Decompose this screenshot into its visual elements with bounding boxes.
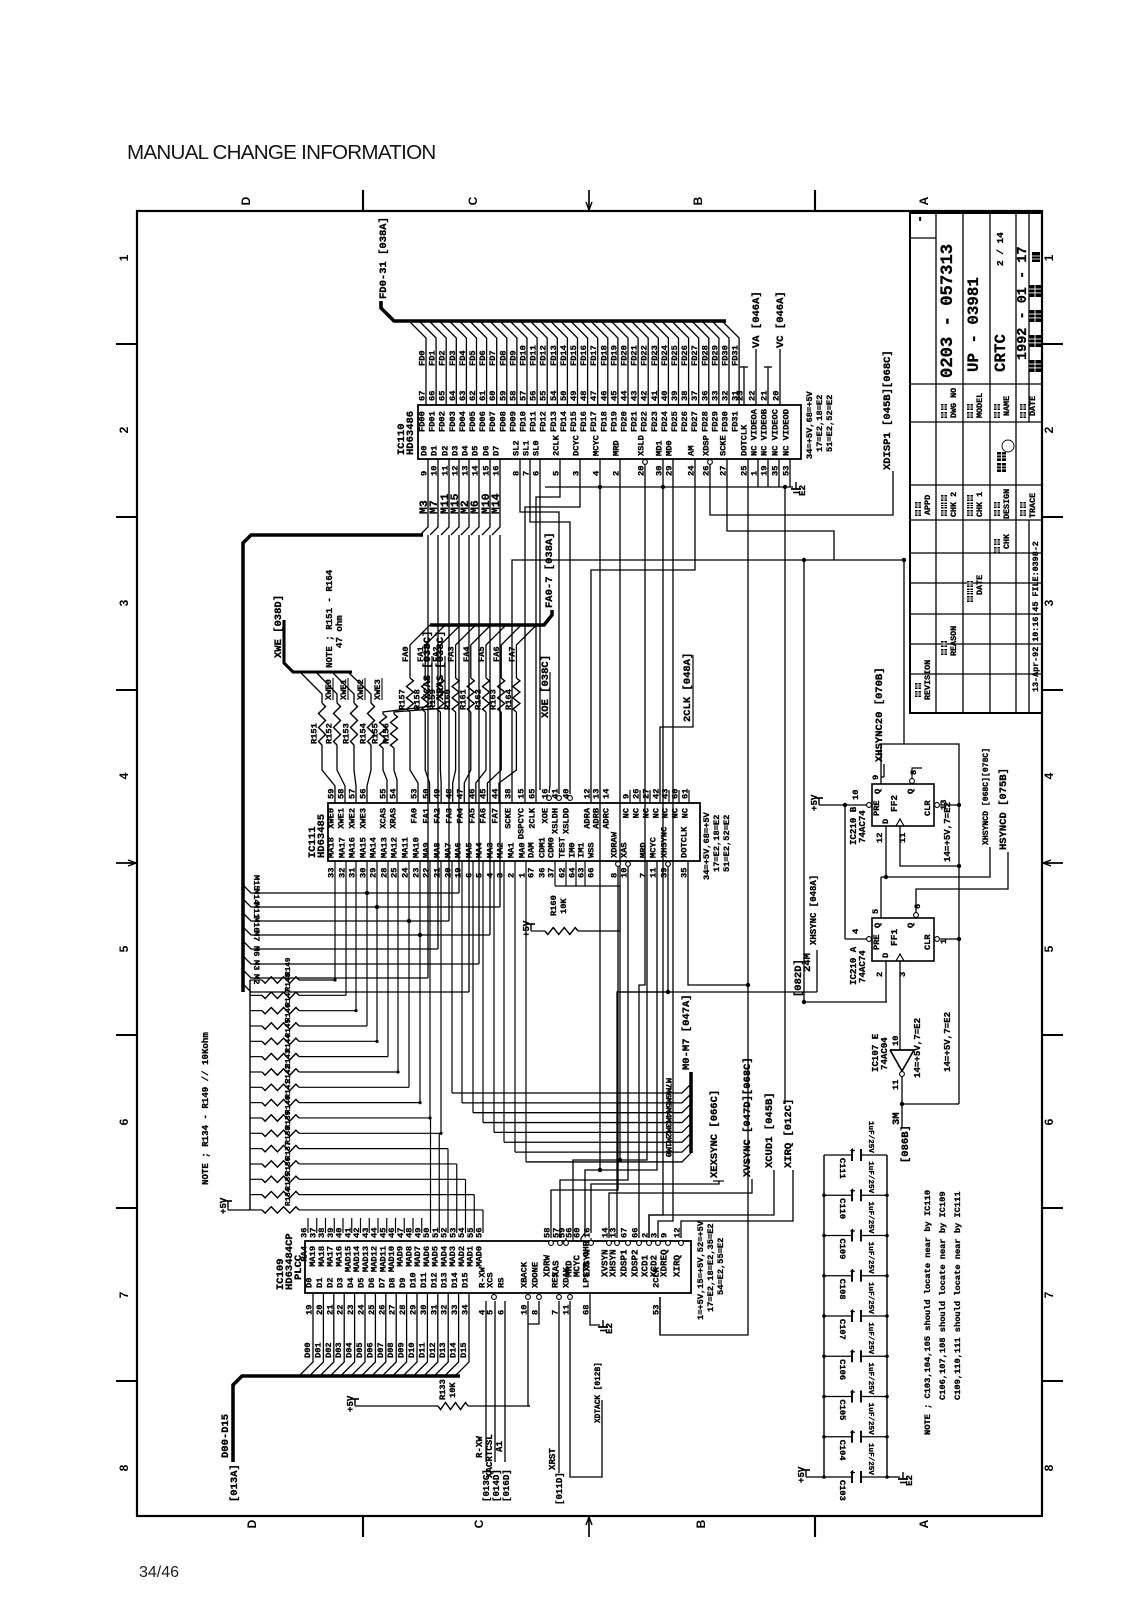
wire SL0 down bbox=[539, 459, 541, 790]
svg-text:FD21: FD21 bbox=[630, 411, 640, 432]
clock triangle FF2 bbox=[896, 819, 904, 826]
svg-text:9: 9 bbox=[660, 1233, 670, 1238]
wire R140 row extension bbox=[299, 1117, 431, 1119]
svg-text:3M: 3M bbox=[891, 1112, 903, 1125]
svg-text:D14: D14 bbox=[449, 1342, 459, 1358]
wire 2CLK IC110 to IC111 pin 65 bbox=[536, 459, 560, 803]
svg-text:D11: D11 bbox=[417, 1342, 427, 1358]
svg-text:MA15: MA15 bbox=[359, 837, 369, 858]
wire M3 stub from M bus bbox=[243, 970, 428, 978]
wire +5V rail for R134-R149 bbox=[227, 1201, 229, 1207]
wire FD22 branch bbox=[631, 321, 648, 405]
wire MA7 vertical bbox=[451, 861, 453, 1093]
svg-text:D2: D2 bbox=[441, 446, 451, 456]
svg-text:D5: D5 bbox=[471, 446, 481, 456]
wire drop to IC109 MAD pin bbox=[456, 1164, 458, 1233]
wire FD14 branch bbox=[550, 321, 567, 405]
svg-text:NC: NC bbox=[661, 808, 671, 818]
resistor R164 bbox=[513, 678, 520, 712]
svg-text:M0-M7 [047A]: M0-M7 [047A] bbox=[681, 994, 693, 1070]
svg-text:10K: 10K bbox=[559, 898, 569, 914]
svg-text:HD63486: HD63486 bbox=[405, 411, 417, 455]
svg-text:22: 22 bbox=[748, 391, 758, 401]
svg-text:CHK 2: CHK 2 bbox=[949, 492, 959, 517]
wire MRD long run to IC109 pin 56 bbox=[573, 459, 620, 1238]
svg-text:VA [046A]: VA [046A] bbox=[751, 291, 763, 348]
svg-text:MA7: MA7 bbox=[444, 842, 454, 858]
svg-text:DESIGN: DESIGN bbox=[1002, 489, 1012, 519]
wire MA vertical from IC111 bbox=[408, 861, 410, 1087]
zone tick bottom bbox=[362, 1516, 364, 1537]
wire R136 row extension bbox=[299, 1178, 466, 1180]
svg-text:9: 9 bbox=[871, 775, 881, 780]
svg-text:NC VIDEOD: NC VIDEOD bbox=[782, 409, 792, 456]
svg-text:44: 44 bbox=[620, 391, 630, 401]
svg-text:56: 56 bbox=[359, 789, 369, 799]
svg-text:67: 67 bbox=[527, 868, 537, 878]
wire M6 stub from M bus bbox=[243, 956, 479, 964]
svg-text:XHSYNCD [068C][078C]: XHSYNCD [068C][078C] bbox=[982, 748, 991, 845]
svg-text:R160: R160 bbox=[443, 689, 453, 710]
svg-text:66: 66 bbox=[631, 1228, 641, 1238]
svg-text:63: 63 bbox=[458, 391, 468, 401]
bubble pin 12 IC109 bbox=[679, 1241, 684, 1246]
svg-text:41: 41 bbox=[551, 789, 561, 799]
svg-text:FA7: FA7 bbox=[491, 808, 501, 824]
svg-text:40: 40 bbox=[660, 391, 670, 401]
power +5V cap rail bbox=[806, 1476, 824, 1478]
svg-text:1: 1 bbox=[117, 254, 131, 261]
svg-text:FD20: FD20 bbox=[620, 411, 630, 432]
zone tick right bbox=[1042, 516, 1063, 518]
svg-text:D8: D8 bbox=[388, 1278, 398, 1288]
wire M15 stub from M bus bbox=[243, 885, 459, 893]
bubble FF1 CLR bbox=[935, 937, 940, 942]
wire M4 row bbox=[483, 1114, 691, 1123]
wire FA3 branch bbox=[456, 625, 476, 648]
wire M10 from IC110 bbox=[482, 459, 490, 535]
svg-text:2: 2 bbox=[117, 426, 131, 433]
svg-text:62: 62 bbox=[468, 391, 478, 401]
svg-text:FD30: FD30 bbox=[721, 345, 731, 366]
capacitor C110 1uF/25V bbox=[824, 1194, 852, 1196]
wire M7 stub from M bus bbox=[243, 941, 438, 949]
svg-text:59: 59 bbox=[498, 391, 508, 401]
svg-text:D02: D02 bbox=[324, 1342, 334, 1358]
wire M10 vertical join bbox=[489, 535, 491, 935]
zone tick left bbox=[116, 1034, 137, 1036]
wire D1 to D bus bbox=[309, 1293, 323, 1376]
wire M3 vertical join bbox=[427, 535, 429, 978]
svg-text:C109,110,111 should locate nea: C109,110,111 should locate near by IC111 bbox=[953, 1191, 963, 1400]
svg-text:XHSYNC: XHSYNC bbox=[660, 827, 670, 858]
ground E2 at LPSTB bbox=[602, 1320, 604, 1327]
svg-text:XDONE: XDONE bbox=[531, 1262, 541, 1288]
svg-text:64: 64 bbox=[448, 391, 458, 401]
svg-text:XSLDD: XSLDD bbox=[562, 808, 572, 834]
svg-text:M2: M2 bbox=[251, 974, 261, 984]
wire FA6 to resistor bbox=[500, 648, 502, 678]
svg-text:SL1: SL1 bbox=[522, 440, 532, 456]
resistor R146 10K pull-up bbox=[250, 1025, 262, 1027]
svg-text:FD09: FD09 bbox=[508, 411, 518, 432]
svg-text:57: 57 bbox=[348, 789, 358, 799]
svg-text:17=E2,18=E2: 17=E2,18=E2 bbox=[712, 815, 722, 872]
svg-text:D1: D1 bbox=[315, 1278, 325, 1288]
svg-text:FD12: FD12 bbox=[539, 345, 549, 366]
svg-text:FD28: FD28 bbox=[700, 411, 710, 432]
svg-text:R134: R134 bbox=[285, 1187, 293, 1206]
wire tap to XWE2 bbox=[332, 672, 354, 703]
wire XOE to pin 16 bbox=[549, 720, 550, 793]
wire NC stub IC111 bbox=[678, 790, 680, 803]
svg-text:17=E2,18=E2: 17=E2,18=E2 bbox=[815, 395, 825, 452]
label CHK 2 bbox=[941, 510, 947, 516]
wire M2 vertical join bbox=[468, 535, 470, 992]
bubble pin 57 IC109 bbox=[558, 1241, 563, 1246]
wire NC stub IC111 bbox=[688, 790, 690, 803]
wire short stub IC109 top bbox=[572, 1238, 574, 1241]
zone tick right bbox=[1042, 1034, 1063, 1036]
svg-text:FD31: FD31 bbox=[731, 345, 741, 366]
svg-text:SL0: SL0 bbox=[532, 440, 542, 456]
capacitor C106 1uF/25V bbox=[824, 1355, 852, 1357]
bubble pin 3 IC109 bbox=[656, 1241, 661, 1246]
wire FD10 branch bbox=[510, 321, 527, 405]
svg-text:CRTC: CRTC bbox=[992, 334, 1010, 372]
svg-text:74AC74: 74AC74 bbox=[857, 950, 868, 983]
svg-text:2CLK: 2CLK bbox=[652, 1266, 662, 1288]
wire D9 to D bus bbox=[393, 1293, 407, 1376]
wire XDRAW to IC109 pin 58 bbox=[551, 867, 618, 1238]
bubble FF1 Qbar bbox=[914, 913, 919, 918]
svg-text:REASON: REASON bbox=[949, 626, 959, 656]
wire XDAK to XDTACK bbox=[570, 1301, 602, 1477]
wire R159 to FA pin bbox=[439, 712, 442, 803]
svg-text:+: + bbox=[847, 1349, 857, 1354]
svg-text:FD25: FD25 bbox=[670, 345, 680, 366]
svg-text:REVISION: REVISION bbox=[923, 660, 933, 700]
svg-text:MA2: MA2 bbox=[496, 842, 506, 858]
bubble pin 59 IC109 bbox=[564, 1241, 569, 1246]
wire M15 vertical join bbox=[458, 535, 460, 893]
wire MA vertical from IC111 bbox=[376, 861, 378, 1041]
svg-text:M3: M3 bbox=[251, 960, 261, 970]
capacitor C107 1uF/25V bbox=[824, 1315, 852, 1317]
wire M3 from IC110 bbox=[420, 459, 428, 535]
svg-text:R157: R157 bbox=[398, 689, 408, 710]
svg-text:FD7: FD7 bbox=[488, 350, 498, 366]
svg-text:FD3: FD3 bbox=[448, 350, 458, 366]
wire FD7 branch bbox=[480, 321, 497, 405]
svg-text:2CLK: 2CLK bbox=[552, 434, 562, 456]
svg-text:45: 45 bbox=[609, 391, 619, 401]
wire LPSTB to E2 bbox=[590, 1293, 600, 1325]
svg-text:R164: R164 bbox=[504, 689, 514, 710]
svg-text:16: 16 bbox=[541, 789, 551, 799]
wire FD19 branch bbox=[601, 321, 618, 405]
svg-text:11: 11 bbox=[649, 868, 659, 878]
svg-text:RES: RES bbox=[551, 1272, 561, 1288]
svg-text:R161: R161 bbox=[458, 689, 468, 710]
svg-text:D3: D3 bbox=[451, 446, 461, 456]
wire FD2 branch bbox=[429, 321, 446, 405]
label DWG NO bbox=[941, 412, 947, 418]
svg-text:FD1: FD1 bbox=[428, 350, 438, 366]
svg-text:20: 20 bbox=[772, 391, 782, 401]
wire drop to IC109 MAD pin bbox=[447, 1149, 449, 1233]
svg-text:XDISP1 [045B][068C]: XDISP1 [045B][068C] bbox=[882, 350, 894, 470]
svg-text:C105: C105 bbox=[837, 1400, 847, 1421]
wire R134 row extension bbox=[299, 1209, 483, 1211]
label REASON bbox=[941, 649, 947, 655]
svg-text:7: 7 bbox=[639, 873, 649, 878]
svg-text:IM1: IM1 bbox=[577, 842, 587, 858]
wire R144 row to MA vertical bbox=[299, 1056, 388, 1058]
svg-text:ADRB: ADRB bbox=[592, 807, 602, 829]
svg-text:60: 60 bbox=[573, 1228, 583, 1238]
svg-text:MD0: MD0 bbox=[665, 440, 675, 456]
svg-text:56: 56 bbox=[475, 1228, 485, 1238]
wire D8 to D bus bbox=[382, 1293, 396, 1376]
wire A1 down bbox=[504, 1301, 506, 1462]
svg-text:2CLK [048A]: 2CLK [048A] bbox=[682, 653, 694, 722]
svg-text:34=+5V,68=+5V: 34=+5V,68=+5V bbox=[805, 390, 815, 459]
svg-text:XHSYNC20 [070B]: XHSYNC20 [070B] bbox=[874, 667, 886, 762]
zone tick right bbox=[1042, 343, 1063, 345]
zone tick left bbox=[116, 1207, 137, 1209]
svg-text:8: 8 bbox=[1042, 1464, 1056, 1471]
zone tick left bbox=[116, 343, 137, 345]
svg-text:6: 6 bbox=[1042, 1118, 1056, 1125]
wire spur to FF loop bbox=[834, 560, 904, 744]
svg-text:FD27: FD27 bbox=[690, 411, 700, 432]
svg-text:Q: Q bbox=[906, 789, 916, 794]
svg-text:D4: D4 bbox=[461, 446, 471, 456]
wire FF2 CLK to loop bbox=[900, 826, 959, 866]
svg-text:13-Apr-92 10:16:45 FILE:0398-2: 13-Apr-92 10:16:45 FILE:0398-2 bbox=[1031, 541, 1041, 692]
resistor R151 47ohm bbox=[319, 703, 326, 745]
svg-text:C: C bbox=[472, 1519, 486, 1528]
wire D11 to D bus bbox=[413, 1293, 427, 1376]
bubble XCS pin 5 bbox=[492, 1295, 497, 1300]
resistor R152 47ohm bbox=[334, 703, 341, 745]
wire M5 row bbox=[473, 1104, 691, 1113]
wire drop to IC109 MAD pin bbox=[465, 1179, 467, 1233]
power +5V for R133 bbox=[354, 1399, 356, 1405]
svg-text:57: 57 bbox=[519, 391, 529, 401]
wire MA vertical from IC111 bbox=[366, 861, 368, 1026]
svg-text:XDSP1: XDSP1 bbox=[619, 1249, 630, 1277]
svg-text:FD07: FD07 bbox=[488, 411, 498, 432]
svg-text:4: 4 bbox=[1042, 772, 1056, 779]
svg-text:FD19: FD19 bbox=[609, 411, 619, 432]
svg-text:1uF/25V: 1uF/25V bbox=[866, 1363, 874, 1395]
svg-text:11: 11 bbox=[891, 1080, 901, 1090]
wire MA3 vertical bbox=[493, 861, 495, 1132]
zone tick top bbox=[814, 190, 816, 211]
wire D13 to D bus bbox=[434, 1293, 448, 1376]
wire FA5 to resistor bbox=[485, 648, 487, 678]
wire FD21 branch bbox=[621, 321, 638, 405]
svg-text:FD13: FD13 bbox=[549, 411, 559, 432]
svg-text:34/46: 34/46 bbox=[139, 1564, 179, 1581]
bubble pin 2 IC109 bbox=[647, 1241, 652, 1246]
wire NC stub with end dash bbox=[743, 367, 745, 405]
svg-text:APPD: APPD bbox=[923, 495, 933, 515]
svg-text:FA6: FA6 bbox=[479, 808, 489, 824]
wire loop bottom bbox=[902, 1103, 959, 1105]
wire R162 to FA pin bbox=[476, 712, 486, 803]
svg-text:E2: E2 bbox=[604, 1323, 615, 1334]
wire FD3 branch bbox=[439, 321, 456, 405]
svg-text:36: 36 bbox=[700, 391, 710, 401]
wire FD25 branch bbox=[662, 321, 679, 405]
svg-text:46: 46 bbox=[599, 391, 609, 401]
wire FD30 branch bbox=[712, 321, 729, 405]
svg-text:D01: D01 bbox=[313, 1342, 323, 1358]
wire MA vertical from IC111 bbox=[355, 861, 357, 1011]
wire RES to XRST bbox=[558, 1301, 560, 1473]
wire NC stub IC111 bbox=[629, 790, 631, 803]
wire NC pin stub to E2 rail bbox=[767, 459, 769, 487]
wire M14 vertical join bbox=[499, 535, 501, 907]
svg-text:R159: R159 bbox=[428, 689, 438, 710]
svg-text:[016D]: [016D] bbox=[501, 1469, 512, 1502]
svg-text:SL2: SL2 bbox=[512, 440, 522, 456]
svg-text:Q: Q bbox=[873, 789, 883, 794]
capacitor C111 1uF/25V bbox=[824, 1154, 852, 1156]
svg-text:FD16: FD16 bbox=[579, 345, 589, 366]
wire FF1 PRE riser bbox=[844, 805, 846, 939]
wire 24M line bbox=[804, 1001, 887, 1003]
wire TEST/IM pins rail to R160 bbox=[554, 861, 556, 886]
svg-text:C106: C106 bbox=[837, 1359, 847, 1380]
bubble XBACK pin 10 bbox=[526, 1295, 531, 1300]
svg-text:XWE3: XWE3 bbox=[359, 808, 369, 829]
wire FD16 branch bbox=[571, 321, 588, 405]
wire NC stub IC111 bbox=[649, 790, 651, 803]
wire M14 from IC110 bbox=[492, 459, 500, 535]
svg-text:66: 66 bbox=[428, 391, 438, 401]
svg-text:NOTE ; C103,104,105 should loc: NOTE ; C103,104,105 should locate near b… bbox=[923, 1190, 933, 1435]
wire FA0 branch bbox=[410, 625, 430, 648]
svg-text:+5V: +5V bbox=[809, 794, 820, 811]
svg-text:DWG NO: DWG NO bbox=[949, 388, 959, 418]
wire M11 vertical join bbox=[448, 535, 450, 921]
resistor R137 10K pull-up bbox=[250, 1163, 262, 1165]
zone tick top bbox=[362, 190, 364, 211]
svg-text:XHSYNC [048A]: XHSYNC [048A] bbox=[809, 875, 819, 945]
svg-text:1uF/25V: 1uF/25V bbox=[866, 1322, 874, 1354]
svg-text:C111: C111 bbox=[837, 1158, 847, 1179]
zone tick left bbox=[116, 1380, 137, 1382]
svg-text:D1: D1 bbox=[430, 446, 440, 456]
wire FA7 branch bbox=[516, 625, 536, 648]
wire FA5 branch bbox=[486, 625, 506, 648]
wire drop to IC109 MAD pin bbox=[473, 1195, 475, 1233]
svg-text:NC VIDEOA: NC VIDEOA bbox=[750, 408, 760, 456]
wire FA0 to resistor bbox=[409, 648, 411, 678]
svg-text:MA3: MA3 bbox=[486, 842, 496, 858]
svg-text:D08: D08 bbox=[386, 1342, 396, 1358]
svg-text:MCYC: MCYC bbox=[649, 837, 659, 858]
wire XACRTCSL down bbox=[494, 1301, 496, 1462]
svg-text:FD08: FD08 bbox=[498, 411, 508, 432]
svg-text:D: D bbox=[239, 196, 253, 205]
bubble XDRAW pin 8 bbox=[616, 862, 621, 867]
wire 2CLK label to pin bbox=[660, 724, 693, 795]
wire MA0 vertical bbox=[525, 861, 527, 1162]
wire M7 vertical join bbox=[437, 535, 439, 949]
bubble XSLDD pin 40 bbox=[568, 796, 573, 801]
svg-text:NC VIDEOB: NC VIDEOB bbox=[760, 408, 770, 456]
svg-text:FD18: FD18 bbox=[599, 411, 609, 432]
wire R145 row to MA vertical bbox=[299, 1040, 377, 1042]
svg-text:43: 43 bbox=[630, 391, 640, 401]
svg-text:5: 5 bbox=[871, 909, 881, 914]
wire R163 to FA pin bbox=[487, 712, 501, 803]
centering arrow right bbox=[1043, 862, 1063, 864]
centering arrow top bbox=[588, 190, 590, 210]
drawing border frame bbox=[137, 211, 1042, 1516]
svg-text:XEXSYNC [066C]: XEXSYNC [066C] bbox=[709, 1090, 721, 1178]
wire D10 to D bus bbox=[403, 1293, 417, 1376]
svg-text:47: 47 bbox=[589, 391, 599, 401]
wire D0 to D bus bbox=[299, 1293, 313, 1376]
svg-text:42: 42 bbox=[640, 391, 650, 401]
wire FF2 Qbar stub bbox=[912, 768, 922, 778]
svg-text:D: D bbox=[245, 1519, 259, 1528]
resistor R160 bbox=[452, 678, 459, 712]
capacitor C108 1uF/25V bbox=[824, 1275, 852, 1277]
svg-text:0203 - 057313: 0203 - 057313 bbox=[939, 244, 958, 378]
bubble XDSP pin 26 bbox=[708, 460, 713, 465]
svg-text:C107: C107 bbox=[837, 1319, 847, 1340]
wire R141 row to MA vertical bbox=[299, 1102, 420, 1104]
bubble FF2 PRE bbox=[867, 803, 872, 808]
wire R160 to FA pin bbox=[453, 712, 456, 803]
wire R147 row to MA vertical bbox=[299, 1010, 356, 1012]
svg-text:XCS: XCS bbox=[486, 1272, 496, 1288]
resistor R156 bbox=[391, 714, 398, 748]
svg-text:D14: D14 bbox=[450, 1272, 460, 1288]
svg-text:XCAS: XCAS bbox=[379, 808, 389, 829]
bubble XSLDH pin 41 bbox=[557, 796, 562, 801]
svg-text:MA13: MA13 bbox=[380, 837, 390, 858]
svg-text:FD11: FD11 bbox=[529, 345, 539, 366]
resistor R155 bbox=[380, 714, 387, 748]
wire D3 to D bus bbox=[330, 1293, 344, 1376]
svg-text:MANUAL CHANGE INFORMATION: MANUAL CHANGE INFORMATION bbox=[127, 141, 435, 164]
svg-text:XIRQ [012C]: XIRQ [012C] bbox=[783, 1099, 795, 1168]
svg-text:D15: D15 bbox=[461, 1272, 471, 1288]
svg-text:XAS: XAS bbox=[620, 842, 630, 858]
label REVISION bbox=[915, 691, 921, 697]
wire NC pin stub to E2 rail bbox=[778, 459, 780, 487]
wire FA3 to resistor bbox=[455, 648, 457, 678]
svg-text:MCYC: MCYC bbox=[592, 435, 602, 456]
label DESIGN bbox=[994, 510, 1000, 516]
label NAME bbox=[994, 412, 1000, 418]
svg-text:50: 50 bbox=[422, 789, 432, 799]
bubble pin 14 IC109 bbox=[607, 1241, 612, 1246]
svg-text:49: 49 bbox=[433, 789, 443, 799]
svg-text:65: 65 bbox=[438, 391, 448, 401]
svg-text:MA6: MA6 bbox=[454, 842, 464, 858]
svg-text:FD20: FD20 bbox=[620, 345, 630, 366]
svg-text:FD2: FD2 bbox=[438, 350, 448, 366]
